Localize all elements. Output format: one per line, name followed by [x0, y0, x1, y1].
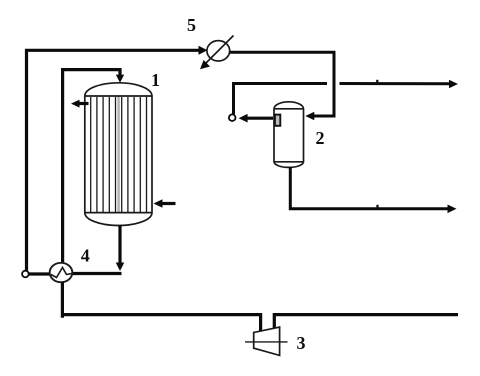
- wire top feed line to exchanger 5: [27, 50, 201, 270]
- wire separator overhead to recycle node: [245, 117, 273, 120]
- wire separator 2 bottoms: [290, 167, 448, 209]
- svg-text:4: 4: [81, 246, 90, 266]
- svg-text:5: 5: [187, 15, 196, 35]
- arrowhead toward node: [239, 114, 248, 123]
- wire recycle elbow down to exchanger 4: [63, 70, 120, 263]
- svg-text:2: 2: [316, 128, 325, 148]
- node open circle at recycle point: [229, 114, 236, 121]
- column 1 shell: [85, 83, 152, 226]
- wire column 1 bottoms down: [118, 225, 121, 264]
- svg-text:3: 3: [297, 333, 306, 353]
- wire feed in right of column 1: [160, 202, 176, 205]
- heat exchanger E4 circle: [50, 263, 73, 282]
- wire vapor product line after crossover: [340, 82, 451, 85]
- wire exchanger 4 down to compressor suction header: [61, 282, 261, 332]
- column R1 tube bundle: [91, 97, 147, 212]
- tick on vapor product line: [376, 80, 378, 83]
- wire product out left of column 1: [78, 102, 89, 105]
- arrowhead into exchanger 5: [199, 46, 208, 55]
- arrowhead down at junction: [116, 263, 125, 272]
- vessel V2 shell: [274, 102, 304, 168]
- arrowhead vapor product: [449, 80, 458, 89]
- arrowhead left out of column 1: [71, 100, 80, 108]
- node open circle left of exchanger 4: [22, 271, 29, 278]
- demister pad in V2: [275, 115, 280, 126]
- heat exchanger E5 circle: [207, 41, 230, 61]
- heat exchanger E4 zigzag: [51, 268, 72, 278]
- compressor K3 body: [254, 327, 280, 355]
- arrowhead down into column 1 top: [116, 75, 124, 83]
- column R1 gray center tube: [117, 97, 119, 213]
- wire exchanger 5 outlet to separator 2: [230, 52, 335, 116]
- arrowhead liquid product: [448, 205, 457, 214]
- arrowhead of E5 diagonal: [200, 60, 210, 69]
- wire compressor discharge to right: [274, 315, 458, 328]
- wire vent stub left of exchanger 4: [29, 272, 51, 275]
- wire vapor product line: [234, 84, 328, 115]
- compressor K3 shaft line: [245, 341, 288, 343]
- wire exchanger 4 to junction: [73, 272, 122, 275]
- svg-text:1: 1: [151, 70, 160, 90]
- heat exchanger E5 diagonal: [206, 36, 234, 64]
- arrowhead into right wall of column 1: [154, 199, 163, 208]
- tick on liquid product line: [376, 205, 378, 208]
- arrowhead into separator 2 right wall: [305, 112, 314, 121]
